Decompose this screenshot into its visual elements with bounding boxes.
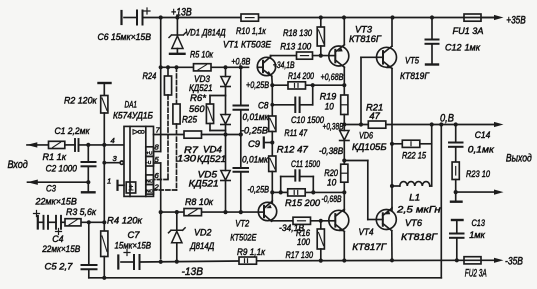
resistor R18 xyxy=(317,18,324,56)
svg-text:C9: C9 xyxy=(248,139,261,150)
wire VT2 emitter node line xyxy=(272,191,280,193)
svg-text:0,01мк: 0,01мк xyxy=(243,112,269,123)
svg-text:22мк×15В: 22мк×15В xyxy=(41,244,80,255)
svg-text:L1: L1 xyxy=(409,192,420,203)
wire -13V / -35V bottom line xyxy=(140,261,239,262)
svg-text:VD2: VD2 xyxy=(194,228,212,239)
node C8/C9 on pin7 line xyxy=(239,132,243,136)
capacitor C8 xyxy=(234,67,249,134)
transistor Q4 VT4 KT817G xyxy=(329,209,349,231)
svg-text:R13 100: R13 100 xyxy=(280,42,312,53)
svg-text:VT6: VT6 xyxy=(405,218,423,229)
op-amp amplifier glyph xyxy=(133,130,144,135)
svg-text:R22 15: R22 15 xyxy=(402,150,427,161)
svg-text:Выход: Выход xyxy=(506,152,532,164)
arrow output lower xyxy=(494,190,504,195)
resistor R21 xyxy=(368,121,386,128)
svg-text:-0,25В: -0,25В xyxy=(248,184,270,195)
resistor R23 xyxy=(452,162,459,201)
svg-text:R25: R25 xyxy=(182,114,198,125)
resistor R24 correction xyxy=(154,67,172,179)
svg-text:4: 4 xyxy=(111,136,115,145)
svg-text:R23 10: R23 10 xyxy=(466,169,491,180)
svg-text:47: 47 xyxy=(369,111,380,122)
svg-text:130: 130 xyxy=(177,154,197,165)
capacitor C12 xyxy=(426,18,439,65)
svg-text:КТ819Г: КТ819Г xyxy=(400,71,430,82)
resistor R19 xyxy=(341,85,348,124)
diode VD3 xyxy=(221,67,230,95)
svg-text:-0,38В: -0,38В xyxy=(319,146,344,157)
wire VT1 collector to R13 xyxy=(270,56,272,57)
fuse FU1 xyxy=(464,14,481,21)
svg-text:R14 200: R14 200 xyxy=(288,71,314,82)
capacitor C11 xyxy=(281,170,314,192)
resistor R8 xyxy=(184,209,202,216)
svg-text:DA1: DA1 xyxy=(125,100,138,111)
node VT3 collector-rail xyxy=(342,15,346,19)
capacitor C14 xyxy=(449,125,463,163)
svg-text:+0,68В: +0,68В xyxy=(321,72,344,83)
resistor R5 xyxy=(194,64,212,71)
svg-text:10: 10 xyxy=(325,102,335,113)
svg-text:R24: R24 xyxy=(143,71,157,82)
ground chassis above C13 xyxy=(452,219,463,221)
svg-text:R11 47: R11 47 xyxy=(284,128,307,139)
arrow output upper xyxy=(494,122,504,127)
wire op-amp pin 7 output xyxy=(154,134,185,136)
capacitor C3 xyxy=(34,211,49,229)
resistor R4 xyxy=(101,222,108,277)
node VD6 anode / VT6 base stub xyxy=(342,158,346,162)
svg-text:-U: -U xyxy=(146,160,151,165)
node R18 top xyxy=(319,15,323,19)
svg-text:100: 100 xyxy=(297,237,311,248)
resistor R11 xyxy=(269,105,276,132)
svg-text:NC: NC xyxy=(146,188,153,193)
svg-text:R4 120к: R4 120к xyxy=(107,216,142,227)
resistor R22 xyxy=(392,140,432,147)
svg-text:C6 15мк×15В: C6 15мк×15В xyxy=(98,32,152,43)
arrow input lower xyxy=(27,180,38,185)
svg-text:КТ817Г: КТ817Г xyxy=(352,242,387,253)
wire input lower line xyxy=(28,181,89,183)
capacitor C4 xyxy=(56,216,62,235)
zener VD1 xyxy=(169,18,186,54)
svg-text:К574УД1Б: К574УД1Б xyxy=(113,111,153,122)
svg-text:+34,1В: +34,1В xyxy=(273,60,295,71)
ground chassis at C3 left xyxy=(37,216,39,229)
node VD2 top xyxy=(175,210,179,214)
wire VT3 emitter to rail xyxy=(343,18,345,45)
wire op-amp pin 8 to +13V vertical xyxy=(154,151,161,153)
wire pin7 line R7 to C8 node xyxy=(202,134,241,136)
resistor R10 in rail xyxy=(241,14,259,21)
svg-text:C11 1500: C11 1500 xyxy=(291,159,320,170)
wire VT6 base stub xyxy=(344,160,368,162)
svg-text:1мк: 1мк xyxy=(469,230,485,241)
svg-text:C10 1500: C10 1500 xyxy=(291,115,325,126)
svg-text:VD6: VD6 xyxy=(359,130,373,141)
wire op-amp pin 5 to -13V drop xyxy=(154,162,161,164)
wire VT3 collector to emitter-line node xyxy=(343,67,345,85)
svg-text:Вход: Вход xyxy=(8,159,28,171)
node VT1 emitter / R11 xyxy=(270,83,274,87)
resistor R2 xyxy=(99,83,111,145)
wire inverting branch down from pin4 line xyxy=(103,145,105,222)
svg-text:R1 1к: R1 1к xyxy=(43,152,67,163)
svg-text:R18 130: R18 130 xyxy=(283,28,313,39)
node C12 top xyxy=(430,15,434,19)
node VT3 collector / R19 xyxy=(342,83,346,87)
svg-text:+13В: +13В xyxy=(171,7,192,19)
wire VT6 emitter join xyxy=(391,207,393,210)
svg-text:C13: C13 xyxy=(472,218,486,229)
wire VT2 collector down and right through R16 xyxy=(271,220,273,222)
svg-text:КД521: КД521 xyxy=(189,179,219,190)
node top rail to bias line xyxy=(159,15,163,19)
capacitor C9b chassis stub xyxy=(264,132,273,157)
svg-text:R6*: R6* xyxy=(190,93,206,104)
node R25 top xyxy=(174,65,178,69)
wire 0V output line with R21 xyxy=(344,124,368,126)
resistor R1 xyxy=(49,141,65,148)
svg-text:NC: NC xyxy=(146,179,153,184)
resistor R16 xyxy=(293,217,311,224)
node R22 leg on 0V line xyxy=(430,122,434,126)
diode VD5 xyxy=(221,135,230,213)
svg-text:0,01мк: 0,01мк xyxy=(242,155,268,166)
svg-text:VT5: VT5 xyxy=(405,56,420,67)
wire VT5 emitter down to VT6 emitter xyxy=(391,69,393,212)
node R4 / pin3 xyxy=(102,220,106,224)
svg-text:R15 200: R15 200 xyxy=(285,198,321,209)
node pin5 drop to -13V xyxy=(159,260,163,264)
capacitor C2 xyxy=(82,145,96,182)
svg-text:C12: C12 xyxy=(445,43,462,54)
transistor Q3 VT3 KT816G xyxy=(329,45,349,67)
node R11/R12 midpoint xyxy=(270,140,274,144)
node C13 bottom on rail xyxy=(455,258,459,262)
node VD5 bottom xyxy=(223,210,227,214)
node C2 tap xyxy=(86,143,90,147)
node R22 left xyxy=(390,142,394,146)
resistor R7 in pin7 line xyxy=(184,131,202,138)
svg-text:0,В: 0,В xyxy=(440,112,454,124)
svg-text:КТ818Г: КТ818Г xyxy=(401,232,438,243)
svg-text:R12 47: R12 47 xyxy=(277,145,309,156)
wire VT6 collector to -35 rail xyxy=(391,231,393,261)
resistor R17 xyxy=(317,221,324,261)
node VT4 emitter on rail xyxy=(342,258,346,262)
node R20 bottom / VT4 collector xyxy=(342,190,346,194)
wire R8 line xyxy=(161,211,184,213)
svg-text:КТ502Е: КТ502Е xyxy=(230,233,257,244)
node lower line / C2 / chassis xyxy=(86,180,90,184)
svg-text:VT4: VT4 xyxy=(359,227,374,238)
svg-text:R2 120к: R2 120к xyxy=(64,95,97,106)
op-amp U1 DA1 K574UD1B box xyxy=(124,126,154,196)
capacitor C6 xyxy=(122,8,151,25)
svg-text:C14: C14 xyxy=(475,130,491,141)
svg-text:VD1 Д814Д: VD1 Д814Д xyxy=(185,28,226,39)
wire VT5 base riser xyxy=(360,57,362,124)
svg-text:C8: C8 xyxy=(258,101,269,112)
svg-text:1: 1 xyxy=(107,177,111,186)
node R24 top xyxy=(166,65,170,69)
node R19 bottom on 0V line xyxy=(342,122,346,126)
node R4 bottom xyxy=(102,276,106,280)
node R18 bottom xyxy=(319,54,323,58)
svg-text:C2 1000: C2 1000 xyxy=(46,164,78,175)
ground chassis below R23 xyxy=(451,200,462,202)
node C11 left stub xyxy=(279,190,283,194)
node R2 / pin4 line xyxy=(102,143,106,147)
svg-text:22мк×15В: 22мк×15В xyxy=(35,197,78,208)
pin 3 inversion circle xyxy=(120,161,123,164)
capacitor C7 xyxy=(118,250,139,270)
resistor R15 xyxy=(288,189,306,196)
diode VD6 xyxy=(340,125,349,165)
zener VD2 xyxy=(169,212,186,260)
fuse FU2 xyxy=(464,257,481,264)
arrow -35V xyxy=(494,258,504,263)
transistor Q6 VT6 KT818G xyxy=(376,208,396,230)
transistor Q1 VT1 KT503E xyxy=(257,57,275,76)
node VD3 top xyxy=(223,65,227,69)
node VD1 top xyxy=(175,15,179,19)
svg-text:R17 130: R17 130 xyxy=(286,250,314,261)
svg-text:C3: C3 xyxy=(46,184,57,195)
wire input upper line to op-amp pin 4 xyxy=(27,144,49,146)
svg-text:R8 10к: R8 10к xyxy=(185,197,213,208)
node C5 tap xyxy=(87,220,91,224)
node L1 left xyxy=(390,184,394,188)
svg-text:2,5 мкГн: 2,5 мкГн xyxy=(396,205,441,216)
node R8 line left xyxy=(159,210,163,214)
ground chassis at C2 xyxy=(82,182,95,192)
svg-text:10: 10 xyxy=(327,177,337,188)
capacitor C10 xyxy=(272,85,312,112)
transistor Q5 VT5 KT819G xyxy=(377,46,397,68)
ground chassis at pin 1 xyxy=(118,181,125,190)
arrow input upper xyxy=(27,142,38,147)
node VT5 collector-rail xyxy=(390,15,394,19)
svg-text:R3 5,6к: R3 5,6к xyxy=(66,207,96,218)
arrow +35V xyxy=(494,15,504,20)
svg-text:R10 1,1к: R10 1,1к xyxy=(236,26,266,37)
svg-text:-35В: -35В xyxy=(505,256,523,268)
node R12 bottom / R15 line xyxy=(270,190,274,194)
svg-text:КД105Б: КД105Б xyxy=(352,142,387,153)
resistor R13 xyxy=(297,52,313,59)
svg-text:VT1 КТ503Е: VT1 КТ503Е xyxy=(223,40,272,51)
node VD4 bottom on pin7 line xyxy=(223,132,227,136)
svg-text:-0,25В: -0,25В xyxy=(241,126,269,137)
node R14 right / C10 xyxy=(311,83,315,87)
svg-text:КТ816Г: КТ816Г xyxy=(349,34,382,45)
node R17 bottom on -35 rail xyxy=(319,259,323,263)
resistor R14 xyxy=(288,82,306,89)
svg-text:FU1 3А: FU1 3А xyxy=(453,26,484,37)
capacitor C5 xyxy=(82,222,97,277)
wire +13V feed down to bias line and op-amp pin 8 xyxy=(160,18,162,152)
wire VT1 emitter line xyxy=(271,76,274,85)
svg-text:C7: C7 xyxy=(128,230,141,241)
resistor R9 in -13/-35 line xyxy=(239,257,257,264)
wire VT2 emitter up to R12 xyxy=(271,201,274,202)
svg-text:КД521: КД521 xyxy=(197,154,226,165)
svg-text:R5 10к: R5 10к xyxy=(190,50,213,61)
capacitor C9 xyxy=(234,135,249,213)
svg-text:C1 2,2мк: C1 2,2мк xyxy=(55,126,90,137)
svg-text:VT2: VT2 xyxy=(235,219,250,230)
wire lower output line xyxy=(456,191,497,193)
node VD2 bottom xyxy=(175,260,179,264)
wire VT5 collector to rail xyxy=(391,18,393,47)
wire feedback bottom run xyxy=(89,277,442,279)
svg-text:15мк×15В: 15мк×15В xyxy=(115,241,152,252)
resistor R6 parallel branch xyxy=(206,96,225,131)
svg-text:-13В: -13В xyxy=(182,266,204,278)
wire R13 to VT3 base xyxy=(313,55,330,57)
svg-text:+U: +U xyxy=(146,151,152,156)
node VT6 collector on rail xyxy=(390,258,394,262)
node bias/+13 feed xyxy=(159,65,163,69)
node C8 top xyxy=(239,65,243,69)
node R17 top xyxy=(319,219,323,223)
resistor R3 xyxy=(65,219,81,226)
svg-text:-0,68В: -0,68В xyxy=(322,194,342,205)
transistor Q2 VT2 KT502E xyxy=(258,202,276,221)
resistor R12 xyxy=(269,156,276,204)
resistor R20 xyxy=(341,164,348,213)
node C9 bottom xyxy=(239,210,243,214)
wire feedback riser to output line xyxy=(440,125,442,278)
wire bias line +0.8V xyxy=(161,66,194,68)
svg-text:C5 2,7: C5 2,7 xyxy=(45,262,74,273)
node feedback riser on 0V line xyxy=(439,122,443,126)
svg-text:1мк: 1мк xyxy=(465,43,481,54)
svg-text:FU2 3А: FU2 3А xyxy=(465,268,487,280)
wire pin 3 lead xyxy=(104,162,120,164)
inductor L1 xyxy=(392,182,432,186)
wire R22/L1 right leg xyxy=(431,125,433,187)
wire feedback leg line xyxy=(38,221,44,223)
svg-text:0,1мк: 0,1мк xyxy=(468,145,494,156)
svg-text:R9 1,1к: R9 1,1к xyxy=(237,247,265,258)
wire top +35V rail from C6 to fuse FU1 xyxy=(143,17,465,19)
svg-text:+0,25В: +0,25В xyxy=(246,80,269,91)
wire VT4 emitter to -35 rail xyxy=(343,232,345,261)
svg-text:Д814Д: Д814Д xyxy=(189,241,214,252)
node lower output tap xyxy=(454,190,458,194)
capacitor C13 xyxy=(450,220,464,260)
capacitor C1 xyxy=(75,139,79,151)
svg-text:+35В: +35В xyxy=(506,15,525,27)
node C14 top xyxy=(454,122,458,126)
node VT5 base on 0V line xyxy=(359,122,363,126)
node R15 right / C11 xyxy=(311,190,315,194)
diode VD4 xyxy=(221,96,230,135)
resistor R25 correction xyxy=(154,67,181,190)
